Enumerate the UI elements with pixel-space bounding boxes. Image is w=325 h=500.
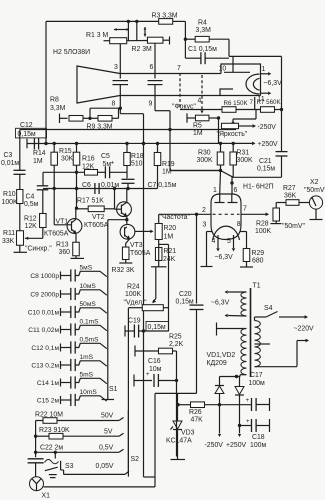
wire left bus upper bbox=[19, 130, 21, 171]
svg-text:+: + bbox=[246, 418, 250, 425]
wire bus below C21 to corner bbox=[232, 156, 282, 177]
svg-text:"50mV": "50mV" bbox=[304, 187, 325, 194]
svg-text:КТ605А: КТ605А bbox=[44, 231, 69, 238]
resistor R7 560K bbox=[255, 97, 282, 112]
diode VD2 bbox=[235, 377, 244, 426]
wire R19 bottom bbox=[157, 166, 159, 189]
svg-text:100K: 100K bbox=[125, 291, 141, 298]
node bus top bbox=[142, 142, 145, 145]
node C19 bus cross bbox=[142, 329, 145, 332]
wire rail link bbox=[155, 392, 197, 394]
svg-text:C17: C17 bbox=[250, 372, 263, 379]
capacitor C5 5m bbox=[98, 153, 128, 178]
tube H1 anode bars bbox=[215, 194, 238, 203]
resistor R26 47K bbox=[189, 402, 205, 424]
resistor R10 100K bbox=[2, 190, 23, 206]
wire long bus vertical bbox=[142, 114, 145, 477]
wire R24 right corner bbox=[163, 308, 168, 331]
T1 primary middle tap bbox=[255, 343, 271, 345]
svg-text:КТ605А: КТ605А bbox=[84, 222, 109, 229]
node R31 top bbox=[232, 142, 235, 152]
node R15 top bbox=[75, 142, 78, 145]
svg-text:C8 1000p: C8 1000p bbox=[30, 273, 59, 280]
svg-text:C22 2м: C22 2м bbox=[40, 445, 63, 452]
svg-text:+250V: +250V bbox=[226, 442, 247, 449]
capacitor C3 0,01m bbox=[1, 152, 26, 174]
wire R4 leads bbox=[184, 38, 229, 41]
CRT heater pin 1 arrow bbox=[261, 66, 272, 76]
tube H1 grid dashes bbox=[213, 213, 240, 215]
svg-text:+: + bbox=[246, 397, 250, 404]
resistor R13 360 bbox=[56, 234, 84, 259]
svg-text:R15: R15 bbox=[59, 148, 72, 155]
svg-text:5mS: 5mS bbox=[80, 372, 94, 379]
svg-text:Н1- 6Н2П: Н1- 6Н2П bbox=[243, 184, 274, 191]
resistor R12 12K bbox=[24, 214, 46, 231]
resistor R30 300K bbox=[197, 150, 224, 166]
svg-text:C21: C21 bbox=[259, 158, 272, 165]
wire X1 bottom ground run bbox=[44, 486, 156, 488]
svg-text:1M: 1M bbox=[164, 234, 174, 241]
wire R20 R21 junction bbox=[159, 244, 169, 307]
svg-text:R26: R26 bbox=[189, 409, 202, 416]
svg-text:"Яркость": "Яркость" bbox=[217, 131, 248, 138]
svg-text:680: 680 bbox=[252, 258, 264, 265]
wire freq row pin2 bbox=[159, 207, 211, 216]
CRT heater pin 11 arrow bbox=[258, 91, 272, 103]
svg-text:3,3M: 3,3M bbox=[50, 105, 66, 112]
svg-text:0,15м: 0,15м bbox=[257, 166, 275, 173]
connector X2 bbox=[304, 179, 325, 220]
node junction top wire bbox=[127, 20, 139, 23]
CRT deflection plates pin3/8 bbox=[113, 81, 129, 85]
potentiometer R20 1M bbox=[155, 224, 176, 241]
svg-text:0,15м: 0,15м bbox=[176, 299, 194, 306]
svg-text:VT1: VT1 bbox=[56, 218, 69, 225]
wire top frame from box corner to R3 bbox=[46, 21, 159, 143]
svg-text:0,1mS: 0,1mS bbox=[80, 319, 100, 326]
svg-text:C20: C20 bbox=[179, 291, 192, 298]
svg-text:100м: 100м bbox=[250, 442, 266, 449]
svg-text:R30: R30 bbox=[198, 150, 211, 157]
svg-text:+: + bbox=[111, 160, 115, 167]
resistor R27 36K bbox=[283, 185, 310, 205]
wire VT3 emitter down bbox=[126, 239, 130, 247]
pin label 6 bbox=[150, 64, 154, 71]
transistor VT2 KT605A bbox=[84, 202, 131, 229]
resistor R19 1M bbox=[154, 144, 175, 176]
node VD1 rail bbox=[218, 403, 221, 406]
wire R25 right drop bbox=[173, 351, 177, 457]
capacitor C16 10m bbox=[134, 358, 177, 387]
capacitor C4 0,5m bbox=[24, 186, 48, 208]
switch S3 AC mark bbox=[45, 459, 59, 463]
pin label 6 tube bbox=[234, 187, 238, 194]
resistor R6 150K bbox=[222, 99, 254, 112]
wire pin9 to R30 route bbox=[170, 111, 221, 171]
svg-text:R28: R28 bbox=[256, 221, 269, 228]
wire VT2 collector up bbox=[126, 189, 128, 203]
capacitor C22 2m bbox=[34, 445, 124, 454]
switch S4 bbox=[264, 305, 314, 333]
svg-text:R3 3,3M: R3 3,3M bbox=[152, 13, 178, 20]
resistor R16 12K bbox=[82, 156, 98, 176]
svg-text:0,01м: 0,01м bbox=[101, 182, 119, 189]
node R19 top bbox=[156, 142, 159, 145]
wire R8 input bar bbox=[60, 114, 68, 124]
wire R6 row bbox=[180, 109, 222, 111]
wire R5 right to R30 top rail bbox=[209, 116, 220, 143]
svg-text:30K: 30K bbox=[61, 156, 74, 163]
transistor VT1 KT605A bbox=[44, 218, 82, 237]
svg-text:0,5V: 0,5V bbox=[99, 445, 114, 452]
wire R30 bottom to tube H1 pin1 bbox=[171, 165, 223, 194]
svg-text:3: 3 bbox=[203, 222, 207, 229]
svg-text:1M: 1M bbox=[33, 158, 43, 165]
svg-text:4: 4 bbox=[212, 238, 216, 245]
capacitor C12 with range 0,5mS bbox=[31, 337, 106, 354]
potentiometer R11 33K bbox=[2, 230, 24, 245]
wire input left bus bbox=[35, 421, 37, 458]
switch S2 bus bbox=[128, 410, 139, 477]
svg-text:+250V: +250V bbox=[258, 141, 279, 148]
node R18 top bbox=[125, 142, 128, 145]
wire pin9 drop bbox=[155, 85, 170, 111]
svg-text:R32 3K: R32 3K bbox=[112, 267, 135, 274]
svg-text:C14 1м: C14 1м bbox=[37, 380, 60, 387]
label heater 6.3V tube bbox=[215, 254, 234, 261]
svg-text:~6,3V: ~6,3V bbox=[264, 80, 283, 87]
wire pin8 to R29 bbox=[241, 232, 247, 249]
wire pin8 horizontal bbox=[90, 107, 122, 119]
svg-text:7: 7 bbox=[177, 65, 181, 72]
svg-text:C9 2000p: C9 2000p bbox=[30, 292, 59, 299]
wire pin7 to R28 bbox=[241, 212, 269, 216]
svg-text:C11 0,02м: C11 0,02м bbox=[28, 327, 59, 334]
capacitor C13 with range 1mS bbox=[31, 354, 106, 371]
svg-text:8: 8 bbox=[112, 101, 116, 108]
resistor R31 300K bbox=[230, 150, 253, 166]
svg-text:300K: 300K bbox=[197, 157, 213, 164]
svg-text:3: 3 bbox=[114, 64, 118, 71]
pin label 3 bbox=[114, 64, 118, 71]
pin label 7 tube bbox=[243, 206, 247, 213]
resistor R8 3,3M bbox=[50, 97, 83, 122]
svg-text:R31: R31 bbox=[237, 150, 250, 157]
svg-text:R19: R19 bbox=[162, 161, 175, 168]
svg-text:C3: C3 bbox=[4, 152, 13, 159]
connector X1 bbox=[30, 477, 51, 500]
svg-text:R24: R24 bbox=[127, 284, 140, 291]
svg-text:1: 1 bbox=[213, 187, 217, 194]
svg-text:КД209: КД209 bbox=[207, 360, 227, 367]
svg-text:VT2: VT2 bbox=[92, 214, 105, 221]
label H1 type bbox=[243, 184, 274, 191]
wire R9 right up to pin8 node bbox=[112, 108, 119, 118]
svg-text:1M: 1M bbox=[193, 130, 203, 137]
svg-text:R7 560K: R7 560K bbox=[257, 99, 282, 106]
svg-text:R4: R4 bbox=[198, 19, 207, 26]
wire sync pickup row bbox=[20, 128, 236, 131]
wire C20 bottom long drop bbox=[196, 310, 198, 394]
wire R14 bottom to C6 row bbox=[53, 165, 72, 225]
svg-text:R16: R16 bbox=[82, 156, 95, 163]
svg-text:R27: R27 bbox=[283, 185, 296, 192]
svg-text:S2: S2 bbox=[131, 456, 140, 463]
wire long row 188 bbox=[43, 188, 158, 190]
wire C4 to R12 bbox=[42, 190, 44, 214]
wire pin3 down to bar bbox=[201, 232, 213, 267]
svg-text:+: + bbox=[146, 371, 150, 378]
wire mid row 172 bbox=[43, 171, 85, 173]
node R14 top bbox=[53, 142, 56, 145]
resistor R4 3,3M bbox=[195, 19, 211, 42]
wire chassis riser bbox=[144, 393, 156, 487]
wire VT2 emitter node bbox=[108, 216, 129, 224]
svg-text:"Частота": "Частота" bbox=[160, 214, 191, 221]
label Sync bbox=[25, 246, 52, 253]
svg-text:10мS: 10мS bbox=[80, 283, 97, 290]
capacitor C17 100m bbox=[246, 372, 270, 411]
pin label 8 bbox=[112, 101, 116, 108]
svg-text:R29: R29 bbox=[252, 250, 265, 257]
capacitor C22 plates bbox=[28, 459, 44, 463]
resistor R9 3,3M bbox=[83, 116, 113, 131]
pin label 10 bbox=[219, 65, 227, 72]
svg-text:7: 7 bbox=[250, 99, 254, 106]
wire 0,05V row bbox=[64, 463, 129, 474]
wire +250V rail bbox=[27, 142, 252, 144]
switch S3 DC mark bbox=[49, 475, 57, 478]
svg-text:9: 9 bbox=[149, 101, 153, 108]
R21 ground bar bbox=[151, 240, 167, 267]
label +250V rail arrow bbox=[252, 141, 278, 148]
wire R28 top to R27 bbox=[276, 203, 286, 209]
wire R2 to CRT pin 6 bbox=[154, 43, 156, 78]
svg-text:R8: R8 bbox=[50, 97, 59, 104]
svg-text:100K: 100K bbox=[255, 228, 271, 235]
tube heater pins 4 5 arrows bbox=[212, 235, 236, 252]
svg-text:0,05V: 0,05V bbox=[96, 463, 114, 470]
resistor R15 30K bbox=[59, 144, 80, 166]
svg-text:1mS: 1mS bbox=[80, 354, 94, 361]
potentiometer brightness bbox=[217, 123, 248, 138]
wire pin8 plate drop bbox=[119, 85, 121, 109]
wire VT1 collector up bbox=[75, 207, 78, 220]
svg-text:C4: C4 bbox=[26, 194, 35, 201]
svg-text:C6: C6 bbox=[82, 182, 91, 189]
svg-text:R20: R20 bbox=[164, 225, 177, 232]
capacitor C20 0,15m bbox=[176, 291, 204, 310]
svg-text:R25: R25 bbox=[169, 334, 182, 341]
svg-text:2,2K: 2,2K bbox=[169, 341, 184, 348]
CRT cathode heater arc bbox=[246, 74, 259, 94]
svg-text:S3: S3 bbox=[65, 463, 74, 470]
svg-text:24K: 24K bbox=[163, 256, 176, 263]
svg-text:-250V: -250V bbox=[258, 124, 277, 131]
T1 secondary winding bbox=[217, 323, 247, 377]
svg-text:3,3M: 3,3M bbox=[196, 27, 212, 34]
svg-text:~6,3V: ~6,3V bbox=[211, 300, 230, 307]
capacitor C1 0,15m bbox=[188, 46, 217, 64]
svg-text:100м: 100м bbox=[249, 380, 265, 387]
dashed wire CRT pin7 to R6 bbox=[179, 73, 181, 110]
svg-text:KC147A: KC147A bbox=[166, 438, 192, 445]
wire C20 column bbox=[196, 214, 198, 303]
svg-text:R12: R12 bbox=[24, 216, 37, 223]
svg-text:360: 360 bbox=[59, 249, 71, 256]
svg-text:C19: C19 bbox=[128, 318, 141, 325]
wire pin8 step to bus bbox=[120, 108, 143, 114]
tube H1 6N2P envelope bbox=[211, 194, 241, 240]
wire R25 left bar bbox=[135, 346, 159, 357]
wire pin10 vertical bbox=[229, 39, 233, 72]
pin label 3 tube bbox=[203, 222, 207, 229]
svg-text:C5: C5 bbox=[101, 153, 110, 160]
pin label 1 bbox=[213, 187, 217, 194]
wire R28 bottom bar bbox=[271, 221, 306, 230]
svg-text:C10 0,01м: C10 0,01м bbox=[28, 310, 60, 317]
resistor R18 510 bbox=[124, 144, 144, 168]
wire R20 top to freq row bbox=[158, 214, 160, 223]
pin label 9 bbox=[149, 101, 153, 108]
svg-text:C18: C18 bbox=[252, 434, 265, 441]
capacitor C14 with range 5mS bbox=[37, 372, 107, 389]
svg-text:50мS: 50мS bbox=[80, 301, 97, 308]
label R24 bbox=[124, 284, 148, 307]
pin label 4 bbox=[198, 98, 202, 105]
wire +250V arrow bottom bbox=[226, 426, 247, 450]
svg-text:H2 5ЛО38И: H2 5ЛО38И bbox=[53, 49, 90, 56]
wire -250V arrow bottom bbox=[205, 405, 224, 449]
T1 primary bottom lead bbox=[255, 339, 310, 367]
svg-text:36K: 36K bbox=[284, 193, 297, 200]
switch S1 bus bbox=[102, 220, 115, 400]
CRT deflection plates pin6/9 bbox=[148, 81, 163, 85]
capacitor C8 with range 5мS bbox=[30, 265, 106, 282]
svg-text:X2: X2 bbox=[310, 179, 319, 186]
switch S3 arm bbox=[45, 467, 58, 471]
capacitor C12 0,15m bbox=[16, 122, 47, 150]
node VT2 base drop bbox=[113, 187, 122, 209]
resistor R21 24K bbox=[155, 248, 176, 264]
R5 terminal bar bbox=[187, 113, 196, 122]
wire R31 bottom to pin6 rail bbox=[221, 165, 234, 177]
svg-text:5V: 5V bbox=[104, 429, 113, 436]
diode VD1 bbox=[215, 377, 224, 405]
svg-text:S4: S4 bbox=[264, 305, 273, 312]
svg-text:4: 4 bbox=[198, 98, 202, 105]
dashed wire CRT pin4 to R5 wiper bbox=[200, 75, 203, 114]
wire C4 top corner bbox=[42, 172, 44, 186]
wire VT3 collector right bbox=[135, 230, 154, 234]
wire R6 to R7 bbox=[236, 109, 261, 111]
svg-text:0,01м: 0,01м bbox=[1, 160, 19, 167]
wire R18 bottom to C7 bbox=[126, 166, 128, 179]
wire rail 404 bbox=[178, 404, 251, 406]
svg-text:C1 0,15м: C1 0,15м bbox=[188, 46, 217, 53]
svg-text:5: 5 bbox=[227, 238, 231, 245]
diode VD3 KC147A zener bbox=[166, 393, 195, 459]
transformer T1 core bbox=[251, 283, 261, 378]
resistor R25 2,2K bbox=[159, 334, 184, 354]
label H2 tube type bbox=[53, 49, 90, 56]
svg-text:КТ605А: КТ605А bbox=[126, 250, 151, 257]
label VD1 VD2 bbox=[207, 352, 236, 367]
potentiometer R5 1M bbox=[193, 115, 209, 137]
label Focus bbox=[172, 104, 196, 111]
capacitor C6 0,01m bbox=[82, 182, 119, 194]
svg-text:0,15м: 0,15м bbox=[148, 324, 166, 331]
R11 ground bar bbox=[14, 245, 28, 252]
potentiometer R2 3M bbox=[132, 27, 170, 53]
svg-text:50V: 50V bbox=[101, 413, 114, 420]
T1 heater winding 6,3V bbox=[211, 290, 247, 317]
svg-text:T1: T1 bbox=[253, 283, 261, 290]
switch S3 bracket bbox=[61, 461, 74, 470]
svg-text:R13: R13 bbox=[56, 242, 69, 249]
svg-text:10: 10 bbox=[219, 65, 227, 72]
svg-text:R6 150K: R6 150K bbox=[224, 100, 249, 107]
svg-text:VT3: VT3 bbox=[130, 242, 143, 249]
svg-text:~220V: ~220V bbox=[294, 326, 315, 333]
capacitor C21 0,15m bbox=[257, 152, 288, 173]
svg-text:VD1,VD2: VD1,VD2 bbox=[207, 352, 236, 359]
svg-text:2: 2 bbox=[202, 207, 206, 214]
wire R3 to corner down to R4/C1 bbox=[173, 21, 186, 58]
capacitor C11 with range 0,1mS bbox=[28, 319, 107, 336]
svg-text:C13 0,2м: C13 0,2м bbox=[31, 363, 59, 370]
svg-text:C12 0,1м: C12 0,1м bbox=[31, 345, 59, 352]
resistor R14 1M bbox=[33, 144, 57, 166]
svg-text:S1: S1 bbox=[109, 386, 118, 393]
svg-text:47K: 47K bbox=[191, 417, 204, 424]
svg-text:6: 6 bbox=[150, 64, 154, 71]
svg-text:R17 51K: R17 51K bbox=[77, 197, 104, 204]
CRT gun electrode marks bbox=[220, 72, 250, 95]
node C16 right bbox=[175, 379, 178, 382]
node R30 top bbox=[219, 142, 222, 152]
capacitor C18 100m bbox=[240, 418, 270, 449]
svg-text:10mS: 10mS bbox=[80, 389, 98, 396]
svg-text:C15 2м: C15 2м bbox=[37, 398, 60, 405]
node R26 left bbox=[176, 403, 179, 406]
svg-text:R2 3M: R2 3M bbox=[132, 46, 153, 53]
wire R15 bottom junction row bbox=[75, 165, 78, 208]
svg-text:VD3: VD3 bbox=[181, 430, 195, 437]
svg-text:R18: R18 bbox=[131, 153, 144, 160]
CRT tube H2 envelope bbox=[77, 64, 261, 103]
label Frequency bbox=[160, 214, 191, 221]
resistor R32 3K bbox=[112, 247, 135, 274]
capacitor C19 0,15m bbox=[125, 318, 169, 338]
svg-text:R14: R14 bbox=[33, 150, 46, 157]
svg-text:R10: R10 bbox=[3, 191, 16, 198]
wire R7 to bus bbox=[274, 108, 283, 111]
svg-text:8: 8 bbox=[237, 221, 241, 228]
wire R24 left to S2 bus bbox=[128, 308, 142, 473]
svg-text:R1 3 M: R1 3 M bbox=[86, 32, 108, 39]
resistor R22 10M bbox=[35, 412, 124, 424]
svg-text:~6,3V: ~6,3V bbox=[215, 254, 234, 261]
svg-text:7: 7 bbox=[243, 206, 247, 213]
svg-text:R5: R5 bbox=[193, 123, 202, 130]
tube H1 cathode arc bbox=[213, 226, 240, 240]
potentiometer R28 100K bbox=[255, 208, 279, 235]
svg-text:1: 1 bbox=[262, 66, 266, 73]
wire R10 to R11 bbox=[19, 204, 21, 232]
transistor VT3 KT605A bbox=[120, 224, 151, 257]
